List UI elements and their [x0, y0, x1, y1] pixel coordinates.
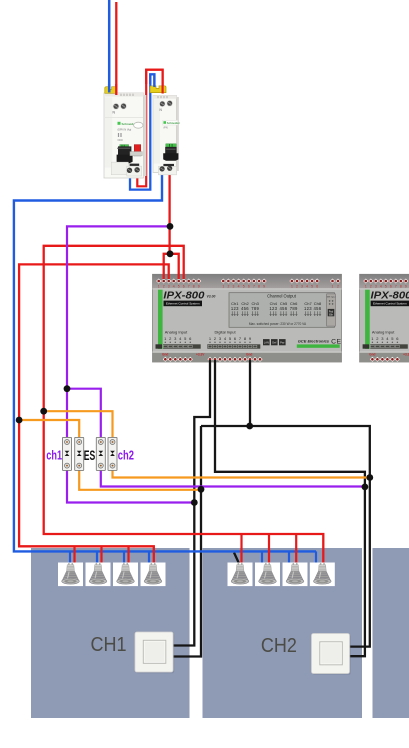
svg-text:CE: CE: [331, 338, 341, 345]
svg-text:+3.3V: +3.3V: [196, 353, 205, 357]
svg-text:5: 5: [178, 285, 180, 289]
svg-text:8: 8: [258, 285, 260, 289]
junction: purple split to ch2 block: [64, 385, 71, 392]
svg-text:123: 123: [231, 306, 239, 311]
wire: block ES left to Gnd wire (orange): [79, 470, 201, 490]
svg-text:Def: Def: [272, 340, 276, 344]
yellow wire clip on Q2: [150, 86, 166, 93]
IPX-800 controller U1: [153, 274, 342, 362]
svg-text:2: 2: [337, 285, 339, 289]
svg-text:8: 8: [400, 285, 402, 289]
svg-text:5: 5: [243, 285, 245, 289]
green bottom bar: [297, 344, 340, 347]
svg-text:2: 2: [163, 285, 165, 289]
Ethernet Control System label: [164, 301, 203, 307]
wire: Gnd bus from IPX to CH1/CH2 switches (black): [172, 360, 370, 657]
svg-text:Channel Output: Channel Output: [267, 294, 297, 299]
svg-text:ch2: ch2: [118, 447, 134, 462]
IPX bottom digital terminals: [207, 357, 262, 362]
wire: switched phase feed to blocks ch1/ch2 (purple): [67, 226, 170, 437]
svg-text:8: 8: [193, 285, 195, 289]
Analog Input block: [363, 330, 408, 349]
svg-text:V3.00: V3.00: [207, 295, 216, 299]
IPX top terminal row 1-6 (right): [289, 278, 319, 288]
junction: orange ES on black Gnd (CH1): [198, 486, 205, 493]
svg-text:Ethernet Control System: Ethernet Control System: [373, 302, 407, 306]
wire: ES link from red feed to block ES left (orange): [19, 420, 79, 437]
svg-text:Analog Input: Analog Input: [165, 330, 188, 335]
svg-text:1: 1: [365, 285, 367, 289]
wire: blue lamp drops group CH2: [262, 551, 316, 564]
svg-text:iPN: iPN: [163, 126, 167, 130]
svg-text:123: 123: [269, 306, 277, 311]
wire: ES link from red feed to block ES right (orange): [44, 411, 113, 437]
svg-text:9: 9: [198, 285, 200, 289]
channel output columns Ch1-Ch8: [231, 301, 322, 316]
lamp L3 (CH1 group): [113, 563, 138, 587]
lamp L8 (CH2 group): [310, 563, 335, 587]
wire: digital input 1 to CH1 switch (black): [172, 360, 210, 646]
terminal block ch1: [63, 437, 72, 470]
svg-text:7: 7: [188, 285, 190, 289]
svg-text:4: 4: [238, 285, 240, 289]
IPX bottom analog terminals: [163, 357, 193, 362]
svg-text:789: 789: [290, 306, 298, 311]
room zone CH2: [203, 548, 363, 718]
wire: Q1 out to Q2 in, phase (red): [137, 70, 162, 187]
svg-text:IPX-800: IPX-800: [371, 291, 409, 302]
svg-text:1: 1: [291, 285, 293, 289]
IPX bottom analog terminals: [370, 357, 400, 362]
junction: orange ES on red relay 3 wire: [16, 417, 23, 424]
svg-text:1: 1: [332, 285, 334, 289]
svg-text:4: 4: [306, 285, 308, 289]
svg-text:Analog Input: Analog Input: [372, 330, 395, 335]
junction: purple ch1 on black input 1: [191, 499, 198, 506]
Ethernet Control System label: [371, 301, 409, 307]
wire: block ES right to Gnd wire (orange): [113, 470, 370, 478]
junction: red phase split: [167, 250, 174, 257]
svg-text:3: 3: [168, 285, 170, 289]
junction: orange ES on black Gnd (CH2): [366, 474, 373, 481]
room zone right (partial): [373, 548, 409, 718]
wall switch CH2: [312, 634, 351, 675]
wire: relay output 3 to CH1 lamp bus (red): [19, 264, 169, 564]
svg-text:ES: ES: [84, 448, 96, 463]
svg-text:1: 1: [158, 285, 160, 289]
room zone CH1: [31, 548, 190, 718]
wire: phase from Q2 to IPX supply terminals 2 and 5 (red): [164, 169, 179, 279]
wire: mains neutral (blue) into breaker Q1: [108, 0, 111, 93]
IPX green side bar: [158, 290, 163, 349]
svg-text:+3.3V: +3.3V: [403, 353, 409, 357]
svg-text:2: 2: [227, 285, 229, 289]
wire: red lamp drops group CH2: [242, 534, 297, 564]
yellow wire clip on Q1: [105, 87, 117, 94]
svg-text:2: 2: [370, 285, 372, 289]
svg-text:Schneider: Schneider: [167, 121, 180, 125]
svg-text:Gnd: Gnd: [369, 353, 375, 357]
wall switch CH1: [135, 632, 174, 673]
svg-text:iDPN N Vigi: iDPN N Vigi: [118, 128, 132, 132]
svg-text:5: 5: [311, 285, 313, 289]
svg-text:6: 6: [248, 285, 250, 289]
wire: neutral from Q2 to lamp groups (blue bus): [14, 169, 316, 551]
svg-text:3: 3: [375, 285, 377, 289]
Channel Output panel: [229, 293, 335, 328]
Analog Input block: [156, 330, 201, 349]
wire: mains phase (red) into breaker Q1: [115, 2, 117, 95]
IPX top terminal row 1-9 (middle, relay outputs): [221, 278, 267, 288]
wire over clip: blue/red mains ends: [108, 84, 111, 93]
svg-text:CH2: CH2: [261, 635, 297, 657]
svg-text:6: 6: [316, 285, 318, 289]
SW input mini panel: [327, 294, 336, 326]
breaker Q2 (Schneider iPN): [153, 96, 180, 175]
svg-text:7: 7: [253, 285, 255, 289]
Digital Input block: [207, 330, 260, 349]
svg-text:9: 9: [405, 285, 407, 289]
svg-text:Digital Input: Digital Input: [214, 330, 236, 335]
svg-text:IPX-800: IPX-800: [163, 291, 204, 302]
wire: Q1 out to Q2 in, neutral (blue): [130, 74, 154, 189]
svg-text:LAN: LAN: [264, 340, 269, 344]
LAN / status mini boxes: [263, 339, 286, 345]
wire: relay output 6 to CH2 lamp bus (red): [44, 246, 324, 564]
junction: orange ES on red relay 6 wire: [40, 408, 47, 415]
svg-text:9: 9: [263, 285, 265, 289]
svg-text:4: 4: [380, 285, 382, 289]
lamp L5 (CH2 group): [228, 563, 253, 587]
svg-text:1: 1: [222, 285, 224, 289]
IPX green side bar: [365, 290, 370, 349]
svg-text:SW input: SW input: [327, 295, 336, 298]
IPX-800 controller U2 (partially visible): [360, 274, 409, 362]
terminal block ch2: [96, 437, 105, 470]
svg-text:5: 5: [385, 285, 387, 289]
svg-text:789: 789: [251, 306, 259, 311]
lamp L6 (CH2 group): [255, 563, 280, 587]
wire: red lamp drops group CH1: [75, 546, 129, 564]
wire: black stub to lamp L5: [234, 553, 240, 565]
svg-text:456: 456: [241, 306, 249, 311]
svg-text:456: 456: [280, 306, 288, 311]
wire: block ch1 to CH1 switch line (purple): [67, 470, 194, 503]
svg-text:CH1: CH1: [91, 634, 127, 656]
IPX top terminal row 1-9 (left): [363, 278, 408, 288]
svg-text:2: 2: [296, 285, 298, 289]
lamp L1 (CH1 group): [58, 563, 83, 587]
svg-text:6: 6: [183, 285, 185, 289]
svg-text:456: 456: [313, 306, 321, 311]
lamp L4 (CH1 group): [141, 563, 166, 587]
svg-text:Ethernet Control System: Ethernet Control System: [166, 302, 200, 306]
IPX top terminal row 1-9 (left): [156, 278, 201, 288]
lamp L7 (CH2 group): [283, 563, 308, 587]
svg-text:Max. switched power: 230 W or: Max. switched power: 230 W or 2770 VA: [249, 322, 307, 326]
IPX top terminal pair (far right): [330, 278, 341, 288]
svg-text:3: 3: [301, 285, 303, 289]
wire: block ch2 to CH2 switch line (purple): [101, 470, 365, 487]
svg-text:123: 123: [304, 306, 312, 311]
wire: digital input 2 to CH2 switch (black): [215, 360, 365, 656]
breaker Q1 (differential, Schneider): [104, 93, 146, 178]
lamp L2 (CH1 group): [86, 563, 111, 587]
junction: Gnd bus: [246, 423, 253, 430]
svg-text:4: 4: [173, 285, 175, 289]
svg-text:6000: 6000: [118, 139, 124, 142]
svg-text:3: 3: [233, 285, 235, 289]
svg-text:7: 7: [395, 285, 397, 289]
terminal block ES-a: [75, 437, 84, 470]
svg-text:GCE Electronics: GCE Electronics: [298, 339, 330, 344]
svg-text:Gnd: Gnd: [246, 353, 252, 357]
terminal block ES-b: [108, 437, 117, 470]
svg-text:Pwr: Pwr: [280, 340, 285, 344]
svg-text:Gnd: Gnd: [162, 353, 168, 357]
svg-text:6: 6: [390, 285, 392, 289]
wire: blue lamp drops group CH1: [70, 551, 149, 564]
junction: purple ch2 on black input 2: [362, 484, 369, 491]
junction: purple feed on red phase: [167, 223, 174, 230]
svg-text:ch1: ch1: [46, 447, 62, 462]
